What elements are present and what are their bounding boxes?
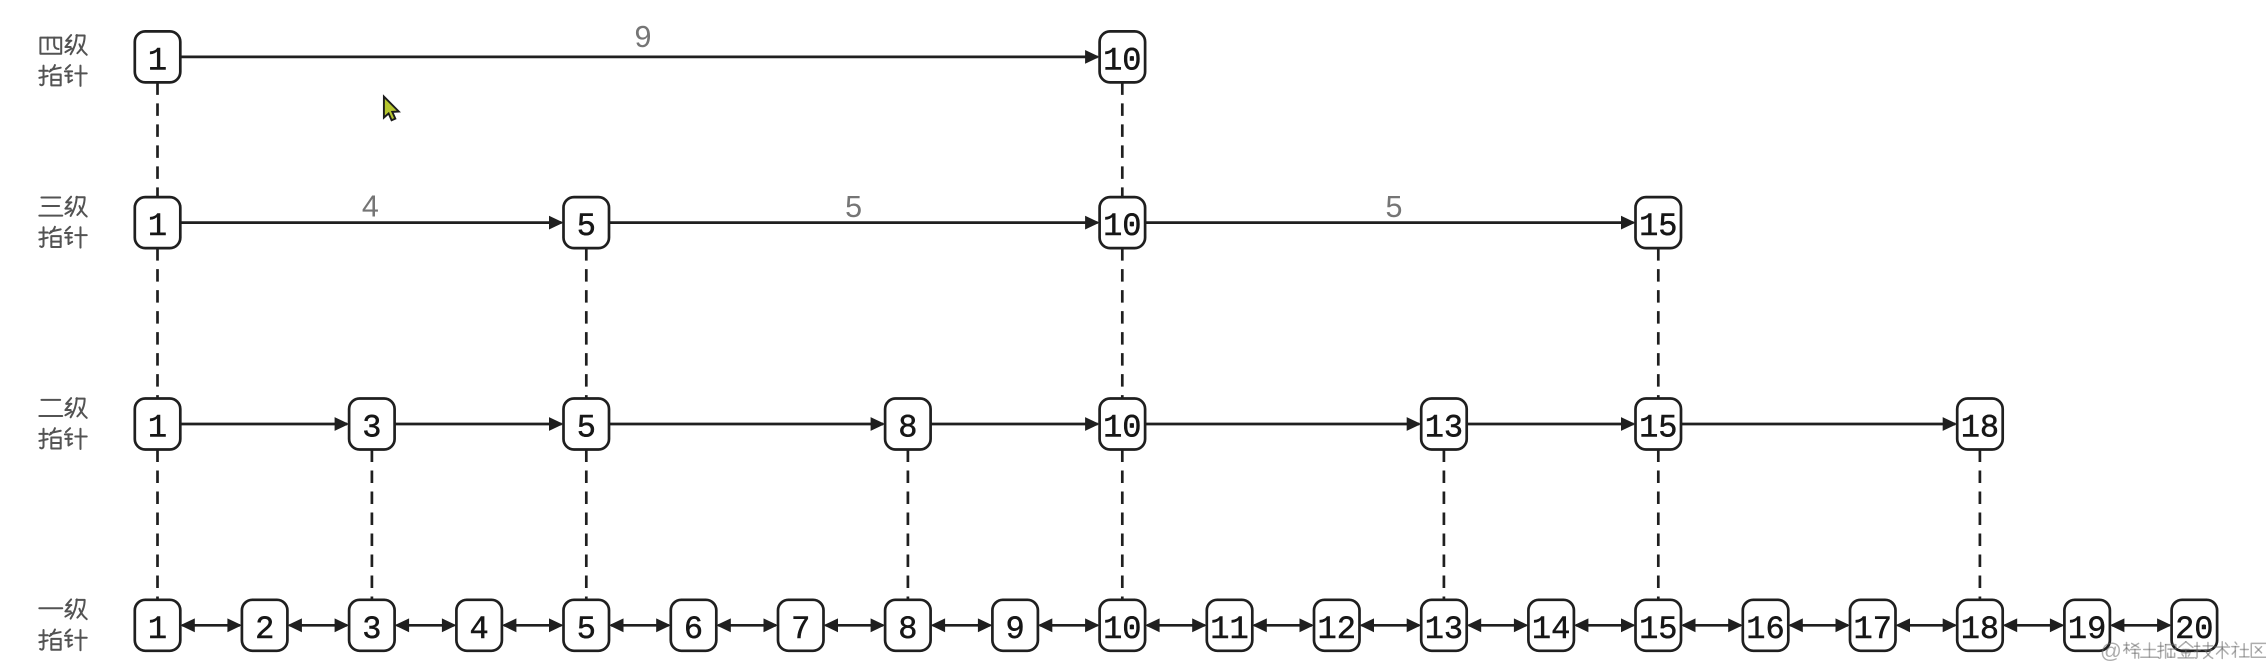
svg-text:12: 12 [1317, 611, 1355, 648]
node 17 (level 1) [1850, 600, 1896, 651]
node 10 (level 1) [1100, 600, 1146, 651]
watermark @稀土掘金技术社区 [2100, 639, 2266, 663]
arrow level 2: 8 to 10 [931, 417, 1100, 431]
svg-text:10: 10 [1103, 208, 1141, 245]
mouse cursor [384, 97, 399, 121]
node 5 (level 3) [564, 197, 610, 248]
svg-text:3: 3 [362, 611, 381, 648]
node 13 (level 2) [1421, 399, 1467, 450]
node 18 (level 2) [1957, 399, 2003, 450]
svg-text:10: 10 [1103, 42, 1141, 79]
arrow level 3: 5 to 10 [609, 216, 1100, 230]
arrow level 2: 5 to 8 [609, 417, 885, 431]
svg-text:7: 7 [791, 611, 810, 648]
dashed wire column 1, level 3 to level 2 [156, 248, 159, 398]
node 6 (level 1) [671, 600, 717, 651]
row label 二级指针 [39, 398, 86, 449]
svg-text:5: 5 [577, 410, 596, 447]
double arrow level 1: 18 to 19 [2003, 618, 2065, 632]
svg-text:17: 17 [1853, 611, 1891, 648]
double arrow level 1: 5 to 6 [609, 618, 671, 632]
arrow level 2: 3 to 5 [395, 417, 564, 431]
node 10 (level 3) [1100, 197, 1146, 248]
svg-text:15: 15 [1639, 208, 1677, 245]
dashed wire column 18, level 2 to level 1 [1979, 450, 1982, 600]
node 8 (level 2) [885, 399, 931, 450]
node 12 (level 1) [1314, 600, 1360, 651]
svg-text:11: 11 [1210, 611, 1248, 648]
svg-text:6: 6 [684, 611, 703, 648]
dashed wire column 15, level 3 to level 2 [1657, 248, 1660, 398]
node 4 (level 1) [456, 600, 502, 651]
double arrow level 1: 19 to 20 [2110, 618, 2172, 632]
dashed wire column 5, level 3 to level 2 [585, 248, 588, 398]
svg-text:1: 1 [148, 611, 167, 648]
node 11 (level 1) [1207, 600, 1253, 651]
double arrow level 1: 16 to 17 [1788, 618, 1850, 632]
row label 一级指针 [39, 599, 86, 650]
svg-text:1: 1 [148, 42, 167, 79]
node 16 (level 1) [1743, 600, 1789, 651]
node 15 (level 3) [1636, 197, 1682, 248]
dashed wire column 10, level 4 to level 3 [1121, 82, 1124, 197]
node 14 (level 1) [1528, 600, 1574, 651]
svg-text:18: 18 [1961, 410, 1999, 447]
node 7 (level 1) [778, 600, 824, 651]
node 15 (level 1) [1636, 600, 1682, 651]
dashed wire column 8, level 2 to level 1 [907, 450, 910, 600]
svg-text:13: 13 [1425, 611, 1463, 648]
svg-text:3: 3 [362, 410, 381, 447]
arrow level 2: 1 to 3 [180, 417, 349, 431]
double arrow level 1: 17 to 18 [1896, 618, 1958, 632]
node 2 (level 1) [242, 600, 288, 651]
dashed wire column 3, level 2 to level 1 [371, 450, 374, 600]
row label 三级指针 [39, 197, 86, 248]
svg-text:8: 8 [898, 611, 917, 648]
double arrow level 1: 4 to 5 [502, 618, 564, 632]
node 13 (level 1) [1421, 600, 1467, 651]
node 3 (level 1) [349, 600, 395, 651]
svg-text:15: 15 [1639, 611, 1677, 648]
node 10 (level 2) [1100, 399, 1146, 450]
node 1 (level 2) [135, 399, 181, 450]
double arrow level 1: 2 to 3 [287, 618, 349, 632]
node 1 (level 1) [135, 600, 181, 651]
node 8 (level 1) [885, 600, 931, 651]
svg-text:16: 16 [1746, 611, 1784, 648]
svg-text:8: 8 [898, 410, 917, 447]
double arrow level 1: 11 to 12 [1252, 618, 1314, 632]
svg-text:14: 14 [1532, 611, 1570, 648]
row label 四级指针 [39, 35, 86, 86]
node 5 (level 1) [564, 600, 610, 651]
node 18 (level 1) [1957, 600, 2003, 651]
node 5 (level 2) [564, 399, 610, 450]
node 9 (level 1) [992, 600, 1038, 651]
svg-text:10: 10 [1103, 611, 1141, 648]
node 19 (level 1) [2064, 600, 2110, 651]
double arrow level 1: 6 to 7 [716, 618, 778, 632]
double arrow level 1: 3 to 4 [395, 618, 457, 632]
double arrow level 1: 10 to 11 [1145, 618, 1207, 632]
svg-text:1: 1 [148, 410, 167, 447]
double arrow level 1: 8 to 9 [931, 618, 993, 632]
double arrow level 1: 15 to 16 [1681, 618, 1743, 632]
arrow level 3: 10 to 15 [1145, 216, 1635, 230]
svg-text:15: 15 [1639, 410, 1677, 447]
dashed wire column 5, level 2 to level 1 [585, 450, 588, 600]
double arrow level 1: 1 to 2 [180, 618, 242, 632]
arrow level 2: 15 to 18 [1681, 417, 1957, 431]
svg-text:5: 5 [845, 190, 862, 224]
dashed wire column 10, level 2 to level 1 [1121, 450, 1124, 600]
double arrow level 1: 7 to 8 [824, 618, 886, 632]
node 15 (level 2) [1636, 399, 1682, 450]
node 3 (level 2) [349, 399, 395, 450]
svg-text:4: 4 [469, 611, 488, 648]
double arrow level 1: 14 to 15 [1574, 618, 1636, 632]
node 20 (level 1) [2172, 600, 2218, 651]
svg-text:5: 5 [1386, 190, 1403, 224]
double arrow level 1: 13 to 14 [1467, 618, 1529, 632]
node 1 (level 3) [135, 197, 181, 248]
double arrow level 1: 9 to 10 [1038, 618, 1100, 632]
arrow level 2: 10 to 13 [1145, 417, 1421, 431]
dashed wire column 10, level 3 to level 2 [1121, 248, 1124, 398]
svg-text:5: 5 [577, 611, 596, 648]
arrow level 2: 13 to 15 [1467, 417, 1636, 431]
svg-text:9: 9 [1005, 611, 1024, 648]
svg-text:4: 4 [362, 189, 379, 223]
dashed wire column 13, level 2 to level 1 [1443, 450, 1446, 600]
svg-text:2: 2 [255, 611, 274, 648]
svg-text:5: 5 [577, 208, 596, 245]
svg-text:10: 10 [1103, 410, 1141, 447]
svg-text:13: 13 [1425, 410, 1463, 447]
dashed wire column 15, level 2 to level 1 [1657, 450, 1660, 600]
svg-text:@: @ [2100, 639, 2122, 663]
dashed wire column 1, level 4 to level 3 [156, 82, 159, 197]
svg-text:18: 18 [1961, 611, 1999, 648]
arrow level 4: 1 to 10 [180, 50, 1099, 64]
dashed wire column 1, level 2 to level 1 [156, 450, 159, 600]
svg-text:1: 1 [148, 208, 167, 245]
double arrow level 1: 12 to 13 [1360, 618, 1422, 632]
svg-text:9: 9 [635, 20, 652, 54]
node 10 (level 4) [1100, 31, 1146, 82]
node 1 (level 4) [135, 31, 181, 82]
arrow level 3: 1 to 5 [180, 216, 563, 230]
